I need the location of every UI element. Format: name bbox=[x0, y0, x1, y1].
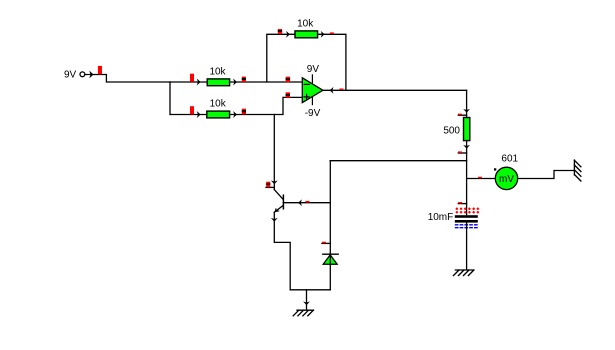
diode D1 cathode bar bbox=[323, 253, 338, 255]
capacitor C1 top plate bbox=[455, 215, 478, 218]
wire R3 to output node bbox=[318, 34, 346, 90]
current arrow input bbox=[90, 72, 93, 77]
wire to resistor R1 bbox=[170, 81, 207, 83]
wire base of Q1 bbox=[283, 202, 330, 204]
op-amp U1 negative supply pin bbox=[311, 98, 313, 105]
pin stub at collector bbox=[266, 186, 274, 188]
voltage tick before meter bbox=[478, 177, 482, 179]
wire R2 to op-amp plus input bbox=[230, 97, 303, 114]
current arrow below R4 bbox=[464, 146, 469, 149]
capacitor C1 bottom plate bbox=[455, 220, 478, 223]
wire R1 to op-amp minus input bbox=[230, 81, 303, 83]
svg-text:10k: 10k bbox=[209, 67, 226, 78]
meter M1 millivoltmeter bbox=[495, 167, 517, 189]
current arrow after R3 bbox=[322, 32, 325, 37]
current arrow on base wire pointing left bbox=[299, 200, 302, 205]
voltage bar input bbox=[98, 66, 102, 74]
transistor Q1 emitter arrow bbox=[275, 208, 279, 212]
resistor R2 10k bbox=[207, 111, 230, 118]
svg-text:10k: 10k bbox=[297, 19, 314, 30]
op-amp U1 minus sign bbox=[304, 83, 309, 85]
wire input from terminal bbox=[85, 75, 170, 83]
voltage bar at op-amp plus bbox=[286, 92, 290, 97]
op-amp U1 plus sign bbox=[304, 94, 309, 99]
pin stub above capacitor C1 bbox=[458, 203, 466, 205]
voltage tick on output bbox=[339, 89, 343, 91]
voltage bar before R1 bbox=[190, 74, 194, 82]
wire junction down to resistor R2 bbox=[170, 82, 207, 115]
wire through diode down to bottom rail bbox=[329, 161, 331, 290]
wire feedback left vertical bbox=[267, 34, 295, 82]
diode D1 triangle bbox=[323, 255, 337, 264]
svg-text:9V: 9V bbox=[307, 64, 320, 75]
current arrow on output pointing left bbox=[330, 88, 333, 93]
ground GND3 right side bbox=[574, 160, 581, 181]
voltage tick above capacitor C1 bbox=[458, 202, 462, 204]
wire R4 down to capacitor bbox=[466, 141, 468, 215]
current arrow on collector wire bbox=[272, 181, 277, 184]
current arrow above R4 bbox=[464, 110, 469, 113]
svg-text:10mF: 10mF bbox=[428, 212, 454, 223]
voltage tick above R4 bbox=[458, 114, 462, 116]
wire emitter down bbox=[274, 212, 330, 289]
ground GND2 below capacitor bbox=[454, 270, 474, 276]
svg-text:-9V: -9V bbox=[305, 108, 321, 119]
wire second stage rail bbox=[330, 160, 466, 162]
pin stub above R4 bbox=[458, 114, 466, 116]
voltage tick after R3 bbox=[330, 32, 334, 34]
current arrow after R2 bbox=[234, 112, 237, 117]
svg-text:9V: 9V bbox=[64, 70, 77, 81]
transistor Q1 collector lead bbox=[274, 190, 283, 200]
wire meter to right ground bbox=[518, 171, 575, 179]
voltage bar at collector bbox=[266, 182, 270, 188]
voltage bar after R2 bbox=[242, 109, 246, 115]
resistor R4 500 bbox=[464, 118, 470, 141]
current arrow before R3 bbox=[287, 32, 290, 37]
voltage bar before R3 bbox=[278, 29, 282, 34]
voltage tick on base wire bbox=[305, 201, 309, 203]
transistor Q1 base bar bbox=[282, 195, 284, 209]
voltage bar before R2 bbox=[190, 106, 194, 114]
current arrow before R1 bbox=[198, 80, 201, 85]
meter M1 positive terminal dot bbox=[494, 168, 496, 170]
wire collector branch down from R2 output node bbox=[273, 115, 275, 190]
wire ground stub bottom bbox=[306, 290, 308, 310]
resistor R1 10k bbox=[207, 79, 229, 86]
voltage bar after R1 bbox=[242, 77, 246, 82]
pin stub above diode D1 bbox=[322, 242, 331, 244]
svg-text:10k: 10k bbox=[210, 98, 227, 109]
current arrow to ground bbox=[304, 302, 309, 305]
ground GND1 bottom bbox=[293, 310, 313, 316]
svg-text:601: 601 bbox=[501, 154, 518, 165]
voltage tick above diode D1 bbox=[322, 242, 326, 244]
current arrow before R2 bbox=[198, 112, 201, 117]
pin stub below R4 bbox=[458, 152, 466, 154]
wire op-amp output bbox=[323, 89, 467, 91]
current arrow after R1 bbox=[234, 80, 237, 85]
wire output node down to resistor R4 bbox=[466, 90, 468, 117]
wire capacitor to ground bbox=[466, 223, 468, 270]
wire to meter bbox=[467, 178, 496, 180]
transistor Q1 emitter lead bbox=[274, 205, 283, 212]
voltage bar at op-amp minus bbox=[286, 77, 291, 82]
current arrow on emitter wire bbox=[272, 219, 277, 222]
node 9V input terminal bbox=[80, 72, 85, 77]
voltage tick below R4 bbox=[458, 151, 462, 153]
svg-text:mV: mV bbox=[499, 174, 514, 185]
svg-text:500: 500 bbox=[443, 125, 460, 136]
resistor R3 10k feedback bbox=[295, 31, 318, 38]
op-amp U1 positive supply pin bbox=[311, 75, 313, 83]
op-amp U1 bbox=[302, 78, 323, 103]
capacitor C1 negative charges bbox=[455, 225, 478, 228]
capacitor C1 positive charges bbox=[456, 208, 480, 214]
